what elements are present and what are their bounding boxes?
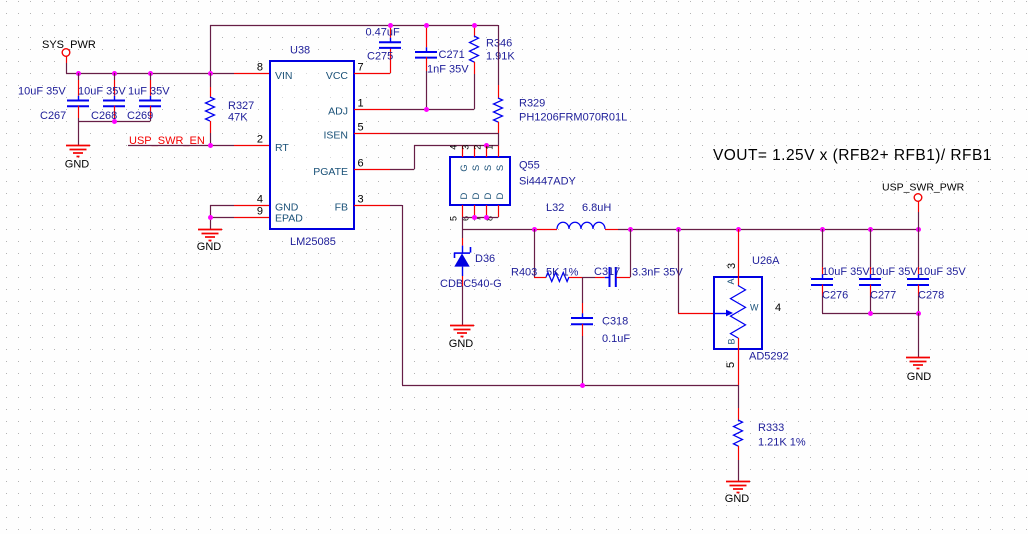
svg-text:5K 1%: 5K 1% xyxy=(546,267,579,279)
junction rail at U26A pin3 xyxy=(736,227,741,232)
svg-text:3: 3 xyxy=(726,263,738,269)
junction rail at C278 xyxy=(916,227,921,232)
svg-text:9: 9 xyxy=(257,205,263,217)
svg-text:4: 4 xyxy=(449,145,459,150)
svg-text:AD5292: AD5292 xyxy=(749,351,789,363)
svg-text:Q55: Q55 xyxy=(519,160,540,172)
wire: ADJ pin 1 net xyxy=(354,109,474,111)
resistor R346 xyxy=(470,26,516,109)
ground GND (input caps) xyxy=(65,146,90,171)
svg-text:RT: RT xyxy=(275,142,289,154)
resistor R329 xyxy=(494,98,628,134)
junction FB rail at C318 xyxy=(580,383,585,388)
wire: output caps bottom rail xyxy=(822,313,918,315)
svg-text:VIN: VIN xyxy=(275,70,293,82)
svg-text:GND: GND xyxy=(725,493,750,505)
wire: switch node rail xyxy=(462,229,557,231)
svg-text:1: 1 xyxy=(485,145,495,150)
note: VOUT formula xyxy=(713,147,992,164)
svg-text:4: 4 xyxy=(775,302,781,314)
svg-text:U26A: U26A xyxy=(752,255,780,267)
wire: PGATE pin 6 net xyxy=(354,145,415,170)
svg-text:U38: U38 xyxy=(290,45,310,57)
wire: caps rail to ground xyxy=(78,121,80,145)
svg-text:C276: C276 xyxy=(822,290,848,302)
wire: rail down to wiper xyxy=(678,229,714,314)
ground GND (R333) xyxy=(725,482,750,506)
U38 pin names xyxy=(275,70,348,225)
transistor Q55 body xyxy=(450,146,577,217)
wire: USP_SWR_EN to RT pin xyxy=(128,145,270,147)
wire: output rail xyxy=(618,229,918,231)
junction Q55 bottom tie b xyxy=(484,215,489,220)
svg-text:6: 6 xyxy=(358,157,364,169)
svg-text:S: S xyxy=(471,165,482,171)
diode D36 (zener) xyxy=(440,246,502,290)
svg-text:L32: L32 xyxy=(546,202,564,214)
ground GND (output caps) xyxy=(906,358,931,384)
wire: Q55 source/drain bottom tie xyxy=(462,217,498,219)
svg-text:C275: C275 xyxy=(367,51,393,63)
svg-text:5: 5 xyxy=(358,121,364,133)
wire: D36 anode to ground xyxy=(462,276,464,325)
svg-text:1.21K 1%: 1.21K 1% xyxy=(758,437,806,449)
svg-text:A: A xyxy=(726,278,736,284)
svg-text:3.3nF 35V: 3.3nF 35V xyxy=(632,267,683,279)
U26A terminal letters xyxy=(726,278,759,344)
capacitor C276 xyxy=(811,229,870,313)
svg-text:GND: GND xyxy=(907,371,932,383)
svg-text:D: D xyxy=(495,192,506,199)
junction on VIN rail at C268 xyxy=(112,71,117,76)
svg-text:ADJ: ADJ xyxy=(328,106,348,118)
IC U26A body xyxy=(714,255,789,363)
svg-text:10uF 35V: 10uF 35V xyxy=(822,266,870,278)
junction rail at C276 xyxy=(820,227,825,232)
capacitor C275 xyxy=(366,26,402,63)
capacitor C277 xyxy=(859,229,918,313)
svg-text:GND: GND xyxy=(449,338,474,350)
svg-text:USP_SWR_PWR: USP_SWR_PWR xyxy=(882,182,965,194)
junction on VIN rail at C269 xyxy=(148,71,153,76)
svg-text:1nF 35V: 1nF 35V xyxy=(427,64,469,76)
wire: SYS_PWR/VIN rail xyxy=(66,73,270,75)
junction ADJ net at C271 xyxy=(424,107,429,112)
svg-text:D: D xyxy=(471,192,482,199)
svg-text:5: 5 xyxy=(449,216,459,221)
capacitor C318 xyxy=(571,313,630,345)
junction gate rail xyxy=(484,143,489,148)
svg-text:G: G xyxy=(459,164,470,171)
svg-text:C271: C271 xyxy=(439,49,465,61)
U26A internal potentiometer xyxy=(714,286,746,339)
power port USP_SWR_PWR xyxy=(882,182,965,230)
power port SYS_PWR xyxy=(42,39,96,74)
junction R327 bottom on RT wire xyxy=(208,143,213,148)
svg-text:R403: R403 xyxy=(511,267,537,279)
wire: R403 to C317 xyxy=(582,277,605,279)
inductor L32 xyxy=(546,202,618,230)
junction rail at R403 branch xyxy=(532,227,537,232)
svg-text:8: 8 xyxy=(257,61,263,73)
resistor R403 xyxy=(511,267,582,282)
wire: U38 EPAD pin 9 xyxy=(210,217,270,219)
svg-text:C267: C267 xyxy=(40,110,66,122)
wire: ISEN pin 5 net xyxy=(354,133,499,146)
wire: SW down to R403 xyxy=(534,229,546,278)
svg-text:10uF 35V: 10uF 35V xyxy=(918,266,966,278)
resistor R333 xyxy=(734,420,806,481)
junction top rail at C271 xyxy=(424,23,429,28)
svg-text:R346: R346 xyxy=(486,38,512,50)
ground GND (D36) xyxy=(449,326,474,351)
svg-text:VCC: VCC xyxy=(326,70,349,82)
wire: FB node down to R333 xyxy=(738,385,740,420)
wire: Q55 gate rail xyxy=(414,145,498,147)
svg-text:10uF 35V: 10uF 35V xyxy=(78,86,126,98)
svg-text:R333: R333 xyxy=(758,422,784,434)
svg-text:R327: R327 xyxy=(228,100,254,112)
svg-text:6.8uH: 6.8uH xyxy=(582,202,611,214)
svg-text:4: 4 xyxy=(257,193,263,205)
svg-text:LM25085: LM25085 xyxy=(290,236,336,248)
svg-text:S: S xyxy=(495,165,506,171)
Q55 pin letters G S S S / D D D D xyxy=(459,164,506,199)
U38 pin numbers xyxy=(257,61,364,217)
capacitor C271 xyxy=(415,26,469,109)
capacitor C278 xyxy=(907,229,966,313)
wire: top feed rail net xyxy=(210,25,498,27)
junction caps bottom at C278 xyxy=(916,311,921,316)
resistor R327 xyxy=(206,73,255,145)
svg-text:VOUT= 1.25V x (RFB2+ RFB1)/ RF: VOUT= 1.25V x (RFB2+ RFB1)/ RFB1 xyxy=(713,147,992,164)
svg-text:FB: FB xyxy=(335,202,348,214)
svg-text:C277: C277 xyxy=(870,290,896,302)
svg-text:2: 2 xyxy=(473,145,483,150)
junction on VIN rail at R327 xyxy=(208,71,213,76)
svg-text:10uF 35V: 10uF 35V xyxy=(870,266,918,278)
svg-text:1uF 35V: 1uF 35V xyxy=(128,86,170,98)
junction caps bottom rail at C268 xyxy=(112,119,117,124)
svg-text:0.47uF: 0.47uF xyxy=(366,27,401,39)
junction top rail at C275 xyxy=(388,23,393,28)
net label USP_SWR_EN xyxy=(129,135,205,147)
wire: R403/C317 node down to C318 xyxy=(582,277,584,313)
svg-text:D: D xyxy=(459,192,470,199)
junction top rail at R346 xyxy=(472,23,477,28)
capacitor C269 xyxy=(127,73,170,122)
wire: C318 to FB rail xyxy=(582,336,584,385)
svg-text:Si4447ADY: Si4447ADY xyxy=(519,176,577,188)
U26A pin 3 wire xyxy=(738,229,740,286)
U26A pin numbers xyxy=(725,263,781,368)
junction caps bottom at C277 xyxy=(868,311,873,316)
wire: node SW down to D36 xyxy=(462,229,464,246)
wire: vertical from top rail to VIN rail xyxy=(210,25,212,73)
svg-text:R329: R329 xyxy=(519,98,545,110)
wire: U38 GND pin 4 xyxy=(210,205,270,207)
wire: VCC pin 7 to C275 xyxy=(354,48,391,74)
svg-text:0.1uF: 0.1uF xyxy=(602,333,630,345)
svg-text:2: 2 xyxy=(257,133,263,145)
IC U38 body xyxy=(270,45,354,249)
svg-text:1: 1 xyxy=(358,97,364,109)
svg-text:1.91K: 1.91K xyxy=(486,51,515,63)
svg-text:EPAD: EPAD xyxy=(275,213,303,225)
junction EPAD wire xyxy=(208,215,213,220)
wire: top rail drop to R329 xyxy=(498,25,500,98)
junction rail at C317 branch xyxy=(628,227,633,232)
svg-text:B: B xyxy=(727,338,737,344)
wire: input caps bottom rail xyxy=(78,121,150,123)
svg-text:C269: C269 xyxy=(127,110,153,122)
capacitor C268 xyxy=(78,73,126,122)
svg-text:D: D xyxy=(483,192,494,199)
svg-text:S: S xyxy=(483,165,494,171)
capacitor C317 xyxy=(594,266,683,287)
svg-text:D36: D36 xyxy=(475,253,495,265)
svg-text:W: W xyxy=(750,303,759,313)
svg-text:GND: GND xyxy=(65,159,90,171)
Q55 pin numbers xyxy=(449,145,495,221)
svg-text:GND: GND xyxy=(197,241,222,253)
wire: FB pin 3 net xyxy=(354,205,738,386)
svg-text:C317: C317 xyxy=(594,266,620,278)
svg-text:C278: C278 xyxy=(918,290,944,302)
wire: C317 up to rail xyxy=(630,229,632,277)
junction Q55 bottom tie a xyxy=(472,215,477,220)
svg-text:47K: 47K xyxy=(228,112,248,124)
junction on VIN rail at C267 xyxy=(76,71,81,76)
junction rail at C277 xyxy=(868,227,873,232)
ground GND (U38) xyxy=(197,230,222,254)
wire: Q55 drain down to node SW xyxy=(462,217,464,229)
wire: caps bottom to ground xyxy=(918,313,920,357)
wire: GND/EPAD drop xyxy=(210,205,212,229)
svg-text:C318: C318 xyxy=(602,316,628,328)
svg-text:5: 5 xyxy=(725,362,737,368)
svg-text:7: 7 xyxy=(358,61,364,73)
svg-text:CDBC540-G: CDBC540-G xyxy=(440,278,502,290)
svg-text:PH1206FRM070R01L: PH1206FRM070R01L xyxy=(519,112,627,124)
svg-text:3: 3 xyxy=(461,145,471,150)
U26A pin 5 wire xyxy=(738,338,740,385)
svg-text:3: 3 xyxy=(358,193,364,205)
junction rail at wiper branch xyxy=(676,227,681,232)
svg-text:ISEN: ISEN xyxy=(323,130,348,142)
svg-text:10uF 35V: 10uF 35V xyxy=(18,86,66,98)
capacitor C267 xyxy=(18,73,89,122)
svg-text:PGATE: PGATE xyxy=(313,166,348,178)
